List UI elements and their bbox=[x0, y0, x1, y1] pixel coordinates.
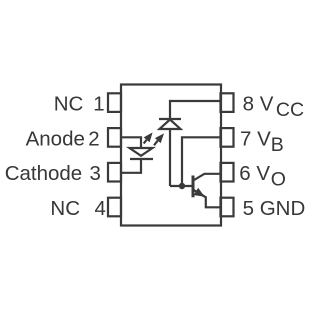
wire VB pin7 to base junction bbox=[182, 137, 221, 186]
pin 3 bbox=[108, 163, 121, 182]
svg-text:3: 3 bbox=[90, 162, 101, 185]
wire photodiode to Vcc pin8 bbox=[170, 101, 221, 119]
pin 4 bbox=[108, 198, 121, 217]
svg-text:O: O bbox=[271, 169, 286, 191]
package body bbox=[121, 85, 221, 226]
wire LED to cathode pin3 bbox=[121, 159, 141, 173]
svg-text:NC: NC bbox=[50, 197, 80, 220]
wire emitter to GND pin5 bbox=[194, 190, 222, 208]
wire anode pin2 to LED bbox=[121, 137, 141, 148]
LED D1 triangle bbox=[130, 148, 153, 156]
svg-text:1: 1 bbox=[93, 93, 104, 116]
svg-text:B: B bbox=[271, 134, 284, 156]
transistor Q1 base bar bbox=[192, 176, 195, 198]
svg-text:NC: NC bbox=[54, 93, 84, 116]
wire collector to VO pin6 bbox=[194, 174, 222, 181]
pin 1 bbox=[108, 93, 121, 112]
svg-text:2: 2 bbox=[88, 127, 99, 150]
wire base horizontal bbox=[170, 185, 192, 187]
svg-text:CC: CC bbox=[276, 99, 304, 121]
light arrow 2 tail bbox=[154, 141, 158, 146]
node base junction dot bbox=[179, 183, 185, 189]
photodiode D2 triangle bbox=[160, 120, 181, 130]
wire photodiode anode down bbox=[169, 129, 171, 186]
svg-text:8 V: 8 V bbox=[243, 93, 274, 116]
pin 6 bbox=[221, 163, 234, 182]
pin 2 bbox=[108, 128, 121, 147]
svg-text:4: 4 bbox=[95, 197, 106, 220]
pin 8 bbox=[221, 93, 234, 112]
svg-text:7 V: 7 V bbox=[240, 127, 271, 150]
light arrow 1 tail bbox=[144, 140, 147, 144]
svg-text:6 V: 6 V bbox=[239, 162, 270, 185]
pin 5 bbox=[221, 198, 234, 217]
light arrow 2 head bbox=[155, 133, 164, 143]
photodiode D2 cathode bar bbox=[159, 118, 181, 120]
LED D1 cathode bar bbox=[130, 158, 153, 160]
light arrow 1 head bbox=[144, 132, 153, 142]
svg-text:Cathode: Cathode bbox=[5, 162, 83, 185]
transistor Q1 emitter arrowhead bbox=[194, 188, 205, 197]
pin 7 bbox=[221, 128, 234, 147]
svg-text:5 GND: 5 GND bbox=[243, 197, 306, 220]
svg-text:Anode: Anode bbox=[26, 127, 85, 150]
